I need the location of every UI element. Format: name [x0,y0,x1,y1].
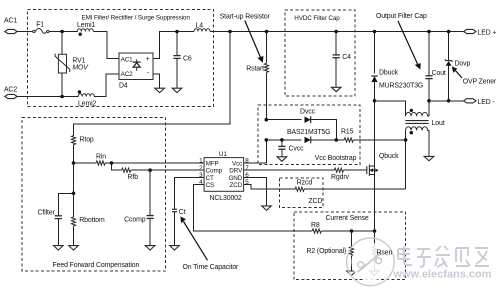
node Ccomp tap [148,168,152,172]
resistor Rbottom [71,217,105,246]
wire Lemi1 to bridge AC1 corner [93,32,119,59]
wire F1 to node [50,31,78,33]
node Dovp bottom LED- [447,99,451,103]
terminal AC1 [4,18,17,34]
svg-text:HVDC Filter Cap: HVDC Filter Cap [294,15,340,22]
watermark chinese characters [398,246,489,267]
svg-text:Rstart: Rstart [246,65,264,72]
svg-text:Output Filter Cap: Output Filter Cap [376,13,427,20]
svg-text:Rbottom: Rbottom [79,217,105,224]
svg-text:C4: C4 [342,54,351,61]
node Rsen top [373,229,377,233]
node top of Rtop feed [228,30,232,34]
current sense dashed box [294,212,406,280]
svg-text:-: - [147,70,149,77]
svg-text:Rin: Rin [96,154,106,161]
resistor Rfb [112,163,205,181]
ground bridge minus [155,88,165,92]
svg-text:On Time Capacitor: On Time Capacitor [183,264,240,271]
svg-text:RV1: RV1 [72,57,85,64]
svg-text:R8: R8 [311,222,320,229]
zener diode Dovp [445,30,471,101]
svg-text:Lemi2: Lemi2 [78,101,97,108]
svg-text:7: 7 [245,165,249,172]
svg-text:Ct: Ct [179,209,186,216]
inductor L4 [194,23,210,32]
svg-text:R15: R15 [341,129,354,136]
svg-text:ZCD: ZCD [308,198,322,205]
svg-text:C6: C6 [183,55,192,62]
svg-text:Dovp: Dovp [455,61,471,68]
svg-text:BAS21M3T5G: BAS21M3T5G [287,129,330,136]
svg-text:Dvcc: Dvcc [300,109,316,116]
ground Cfilter [54,246,64,250]
svg-text:Cout: Cout [432,70,446,77]
wire Vcc node down to IC pin 8 [244,140,267,163]
node junction top of RV1 [60,30,64,34]
OVP zener label and arrow [452,66,497,85]
svg-text:Rfb: Rfb [128,174,139,181]
svg-text:Lout: Lout [432,120,445,127]
svg-text:Qbuck: Qbuck [379,153,399,160]
ground Cvcc [277,157,287,161]
capacitor Cvcc [278,140,304,157]
wire top bus to Rtop [74,32,230,136]
svg-text:2: 2 [199,165,203,172]
wire L4 to LED plus [210,31,464,33]
capacitor C6 [173,32,191,89]
svg-text:NCL30002: NCL30002 [210,195,242,202]
Vcc bootstrap dashed box [258,105,360,165]
node junction bottom of RV1 [60,95,64,99]
svg-text:Dbuck: Dbuck [379,69,399,76]
svg-text:3: 3 [199,172,203,179]
svg-text:AC2: AC2 [121,71,134,78]
wire AC2 to Lemi2 [16,96,78,98]
diode Dvcc [266,109,336,140]
svg-text:D4: D4 [119,83,128,90]
svg-text:Vcc Bootstrap: Vcc Bootstrap [315,155,357,162]
output filter cap label and arrow [376,13,427,70]
node aux winding junction [404,138,408,142]
svg-text:Lemi1: Lemi1 [77,22,96,29]
svg-text:OVP Zener: OVP Zener [463,79,497,86]
fuse F1 [33,21,49,33]
resistor Rtop [72,136,94,164]
wire AC1 to F1 [16,31,33,33]
resistor Rsen [372,231,376,271]
svg-text:4: 4 [199,179,203,186]
svg-text:Start-up Resistor: Start-up Resistor [220,14,271,21]
svg-text:AC1: AC1 [121,56,134,63]
svg-text:1: 1 [199,158,203,165]
svg-text:EMI Filter/ Rectifier / Surge: EMI Filter/ Rectifier / Surge Suppressio… [82,15,191,22]
node Cvcc tap [280,138,284,142]
capacitor Cout [425,30,446,101]
resistor Rin [74,154,205,166]
ground Rsen [370,271,380,275]
capacitor Cfilter [38,193,74,245]
inductor Lout top winding [406,101,429,116]
svg-text:Cvcc: Cvcc [289,145,305,152]
ground Lout aux [424,156,434,160]
svg-text:R2 (Optional): R2 (Optional) [307,248,347,255]
Lout core lines [405,120,444,127]
on time capacitor label and arrow [180,216,239,270]
terminal AC2 [4,87,17,99]
node Cout bottom LED- [427,99,431,103]
svg-text:+: + [146,56,150,63]
ground R2 [347,271,357,275]
svg-text:5: 5 [245,179,249,186]
node Cfilter tap [72,192,76,196]
svg-text:AC2: AC2 [4,87,17,94]
svg-text:www.elecfans.com: www.elecfans.com [393,269,492,281]
node Rtop bottom [72,161,76,165]
svg-text:Ccomp: Ccomp [124,217,146,224]
capacitor C4 [333,30,351,88]
wire Qbuck source down to sense node [374,175,376,231]
svg-text:DRV: DRV [229,168,243,175]
svg-text:LED +: LED + [478,30,497,37]
svg-text:ZCD: ZCD [230,182,243,189]
resistor R15 [336,129,405,142]
svg-text:CT: CT [206,175,214,182]
wire switch node to Lout top winding [375,101,406,116]
transistor Qbuck MOSFET [367,153,399,176]
ground IC GND [262,206,272,210]
svg-text:Cfilter: Cfilter [38,209,56,216]
svg-text:AC1: AC1 [4,18,17,25]
svg-text:Comp: Comp [206,168,223,175]
feed forward compensation dashed box [22,118,166,272]
wire Rtop node down [73,163,75,217]
terminal LED plus [464,29,497,36]
node Dvcc anode [265,118,269,122]
capacitor Ccomp [124,170,154,245]
svg-text:Rsen: Rsen [377,250,393,257]
ZCD dashed box [280,178,324,208]
wire Lemi2 to bridge AC2 corner [94,74,119,97]
resistor R8 CS line [194,185,375,233]
svg-text:F1: F1 [36,21,44,28]
svg-text:U1: U1 [219,151,227,158]
watermark logo circle [347,238,395,286]
start-up resistor label and arrow [220,14,271,63]
IC U1 NCL30002 [204,151,244,202]
ground Rbottom [69,246,79,250]
svg-text:Rzcd: Rzcd [297,179,313,186]
diode bootstrap BAS21M3T5G [266,129,336,143]
svg-text:Feed Forward Compensation: Feed Forward Compensation [53,262,140,269]
resistor Rzcd [244,179,406,205]
svg-text:GND: GND [228,175,242,182]
ground Ccomp [145,246,155,250]
node switch node at Dbuck anode [373,99,377,103]
capacitor Ct on-time [172,177,204,245]
node R2 tap [350,229,354,233]
svg-text:Vcc: Vcc [232,160,242,167]
node R15 left [335,138,339,142]
svg-text:6: 6 [245,172,249,179]
svg-text:CS: CS [206,182,215,189]
ground C6 [172,88,182,92]
wire Qbuck drain up to switch node [374,101,376,166]
resistor Rgdrv DRV gate drive [244,168,367,181]
ground C4 [331,87,341,91]
HVDC filter cap dashed box [285,10,355,96]
diode Dbuck [371,30,423,101]
varistor RV1 MOV [55,32,89,97]
inductor Lemi2 [78,90,97,107]
resistor R2 optional [307,231,354,271]
terminal LED minus [464,99,495,106]
node junction C6 top [175,30,179,34]
svg-text:MFP: MFP [206,160,219,167]
wire GND pin to ground [244,177,267,206]
ground Ct [170,246,180,250]
svg-text:Current Sense: Current Sense [326,215,369,222]
wire bridge minus to ground [153,74,160,88]
EMI/rectifier section dashed box [28,9,214,106]
wire bridge plus to top bus [153,32,194,59]
svg-text:MURS230T3G: MURS230T3G [379,83,423,90]
svg-text:L4: L4 [196,23,204,30]
svg-text:MOV: MOV [72,65,89,72]
wire LED minus bus [429,100,464,102]
svg-text:Rgdrv: Rgdrv [331,174,350,181]
inductor Lout aux winding [406,127,429,157]
wire ZCD line up to aux node [405,140,407,189]
bridge rectifier D4 [119,53,153,90]
svg-text:LED -: LED - [478,99,495,106]
node BAS anode [265,138,269,142]
inductor Lemi1 [77,22,96,36]
node Rin right [110,161,114,165]
svg-text:Rtop: Rtop [80,137,94,144]
svg-text:8: 8 [245,158,249,165]
resistor Rstart [246,30,268,120]
